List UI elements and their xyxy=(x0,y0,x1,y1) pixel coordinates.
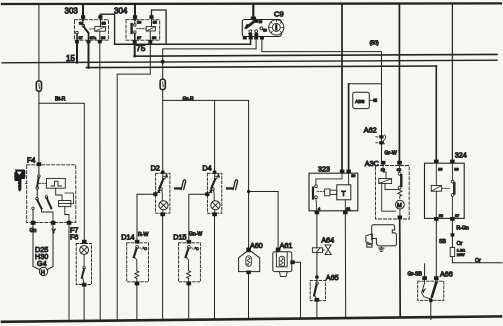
wire branch to A61 xyxy=(249,192,279,248)
wire 323-4 down xyxy=(316,214,318,248)
svg-text:323: 323 xyxy=(318,164,330,173)
seat icon D2 xyxy=(174,180,186,190)
svg-text:SB: SB xyxy=(439,239,446,245)
wire branch to D4 xyxy=(214,100,216,170)
wire 323 pin2 from 50-line xyxy=(349,83,382,85)
thermostat D14 xyxy=(121,232,148,320)
wire C9 pin50 to A3C xyxy=(262,40,382,163)
svg-text:30: 30 xyxy=(397,168,401,172)
svg-text:15: 15 xyxy=(255,33,259,37)
relay 303 xyxy=(75,4,115,44)
svg-text:85: 85 xyxy=(153,21,157,25)
svg-text:Bt-R: Bt-R xyxy=(55,96,66,102)
wire D4 to D15 xyxy=(189,194,208,240)
svg-text:A62: A62 xyxy=(364,126,377,135)
svg-text:Or: Or xyxy=(457,241,463,247)
svg-text:D14: D14 xyxy=(121,232,134,241)
wire D2 to D14 xyxy=(137,194,155,240)
svg-text:87a: 87a xyxy=(90,36,97,40)
svg-text:A66: A66 xyxy=(440,270,453,279)
svg-text:87: 87 xyxy=(137,36,141,40)
wire 304-87 to 75 line xyxy=(134,43,136,56)
fuse A64 xyxy=(312,235,334,254)
svg-text:A3C: A3C xyxy=(365,159,379,168)
svg-text:86: 86 xyxy=(438,168,442,172)
connector fuse Bt-R xyxy=(36,81,41,91)
ignition switch C9 xyxy=(242,4,284,40)
svg-text:1.2Ω: 1.2Ω xyxy=(457,249,465,253)
switch D4 xyxy=(202,164,221,320)
wire Gr-R branch xyxy=(163,100,249,247)
svg-text:G4: G4 xyxy=(37,259,47,268)
svg-text:87: 87 xyxy=(79,36,83,40)
connector Gr-R xyxy=(160,64,165,171)
svg-text:°C: °C xyxy=(195,247,199,251)
svg-text:(50): (50) xyxy=(370,40,379,46)
svg-text:A60: A60 xyxy=(250,241,263,250)
control unit ABS xyxy=(353,92,377,108)
wire C9 pin75 loop to relays xyxy=(115,40,251,45)
svg-text:86: 86 xyxy=(152,36,156,40)
lamp F6 xyxy=(70,225,92,320)
svg-text:2: 2 xyxy=(210,190,212,194)
svg-text:F4: F4 xyxy=(27,155,35,164)
svg-text:30: 30 xyxy=(137,21,141,25)
svg-text:A65: A65 xyxy=(326,273,339,282)
svg-text:30: 30 xyxy=(454,168,458,172)
wire 303-87 to bus15 xyxy=(76,43,78,63)
svg-text:304: 304 xyxy=(114,7,128,16)
svg-text:T: T xyxy=(341,191,346,198)
seat icon D4 xyxy=(226,180,238,190)
sensor A66 xyxy=(408,264,453,320)
svg-text:86: 86 xyxy=(101,36,105,40)
svg-text:87: 87 xyxy=(455,214,459,218)
bus 15 xyxy=(2,60,497,63)
wire 323-31 to ground xyxy=(344,214,346,318)
relay 323 xyxy=(309,164,358,214)
svg-text:2: 2 xyxy=(158,190,160,194)
wire 323 pin30 from bus30 xyxy=(341,4,343,171)
svg-text:85: 85 xyxy=(439,214,443,218)
svg-text:Gn-W: Gn-W xyxy=(189,231,203,237)
wire 324-86 from 87a line xyxy=(435,66,437,160)
svg-text:303: 303 xyxy=(65,7,79,16)
switch F4 xyxy=(27,155,76,225)
svg-text:ABS: ABS xyxy=(355,99,364,104)
relay 304 xyxy=(126,4,166,44)
svg-text:°C: °C xyxy=(143,247,147,251)
svg-text:Or: Or xyxy=(475,258,481,264)
wire C9 pin15 to bus15 xyxy=(163,40,256,62)
wire F4 feed from bus30 xyxy=(38,4,40,81)
connector A62 xyxy=(364,126,386,145)
svg-text:30: 30 xyxy=(79,21,83,25)
wire 75 line xyxy=(134,54,497,56)
svg-text:F6: F6 xyxy=(70,233,78,242)
wire A3C to ground xyxy=(399,219,402,317)
wire Bt-R branch to F6 xyxy=(39,103,84,240)
switch A65 xyxy=(310,273,338,318)
svg-text:50: 50 xyxy=(263,29,267,33)
svg-text:1: 1 xyxy=(218,174,220,178)
relay 324 xyxy=(425,151,467,221)
svg-text:D4: D4 xyxy=(202,164,211,173)
svg-text:324: 324 xyxy=(455,151,467,160)
wire 304-86 coil ground xyxy=(117,43,150,321)
svg-text:85: 85 xyxy=(102,21,106,25)
wire 303-87a down to 87a line xyxy=(88,43,90,68)
wire R-Gn / Or xyxy=(450,221,502,264)
relay A3C xyxy=(365,159,409,219)
wire 303-86 coil ground xyxy=(99,43,101,321)
svg-text:30: 30 xyxy=(259,20,263,24)
svg-text:M: M xyxy=(397,203,402,209)
motor D25/H30/G4 xyxy=(33,225,53,276)
svg-text:Gr-R: Gr-R xyxy=(183,96,194,102)
wire 87a feed line xyxy=(87,66,437,68)
heater pad A61 xyxy=(273,241,301,319)
wire 324-30 from bus30 xyxy=(451,4,453,160)
switch D2 xyxy=(151,164,170,320)
svg-text:75: 75 xyxy=(249,33,253,37)
bus 30 top xyxy=(2,2,501,5)
svg-text:D2: D2 xyxy=(151,164,160,173)
svg-text:R-Gn: R-Gn xyxy=(456,225,469,231)
wire F4 pin3 to ground xyxy=(68,225,70,321)
svg-text:R-W: R-W xyxy=(138,232,148,238)
heater pad A60 xyxy=(239,241,263,320)
svg-text:15: 15 xyxy=(66,54,75,63)
svg-text:30: 30 xyxy=(351,174,355,178)
svg-text:Gr-W: Gr-W xyxy=(384,151,396,157)
svg-text:A64: A64 xyxy=(321,235,334,244)
starter motor icon xyxy=(366,225,397,252)
svg-text:1: 1 xyxy=(166,174,168,178)
key icon xyxy=(14,170,27,192)
svg-text:A61: A61 xyxy=(280,241,293,250)
svg-text:Gr-SB: Gr-SB xyxy=(408,271,423,277)
wire SB xyxy=(435,221,437,276)
svg-text:10W: 10W xyxy=(457,253,465,257)
svg-text:C9: C9 xyxy=(274,10,284,19)
wire A3C pin30 from bus30 xyxy=(398,4,400,161)
thermostat D15 xyxy=(173,231,202,320)
svg-text:H: H xyxy=(41,270,45,276)
ground bus xyxy=(2,316,501,321)
svg-text:D15: D15 xyxy=(173,232,186,241)
node bus15 junction xyxy=(161,60,165,64)
